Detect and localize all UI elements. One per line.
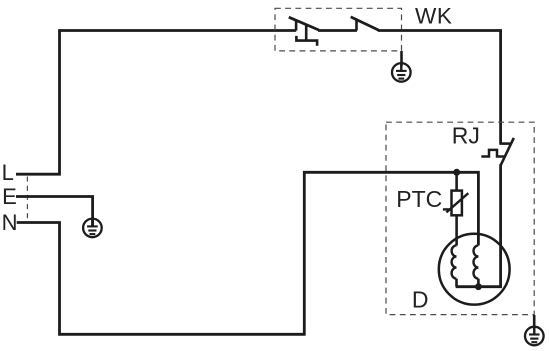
wire E lead and down to ground	[16, 197, 93, 228]
wire riser from bottom wire up and mid wire into enclosure, down to main winding	[304, 172, 478, 334]
wire from junction down to PTC	[455, 172, 458, 190]
ground at compressor enclosure (stem)	[533, 315, 536, 330]
wire start winding to common	[455, 279, 458, 287]
switch S1 fixed contact	[295, 20, 298, 30]
svg-text:D: D	[412, 287, 429, 313]
ground at E (symbol)	[83, 219, 102, 238]
motor D circle	[439, 234, 510, 305]
ground at WK enclosure (stem)	[400, 51, 403, 66]
switch S1 actuator stem	[305, 24, 308, 41]
svg-text:E: E	[2, 184, 17, 209]
overload protector RJ fixed contact	[499, 142, 511, 145]
PTC thermistor diagonal	[446, 193, 468, 212]
svg-text:N: N	[2, 210, 18, 235]
main winding coil	[474, 245, 479, 278]
switch S1 actuator bracket	[296, 36, 317, 46]
wire from PTC down to start winding	[455, 215, 458, 245]
ground at compressor enclosure (symbol)	[525, 327, 544, 346]
svg-text:L: L	[2, 160, 14, 185]
wire main winding to common	[477, 279, 480, 287]
node junction dot at PTC branch	[453, 169, 460, 176]
overload protector RJ thermal actuator	[481, 150, 504, 157]
node junction dot at winding common	[475, 283, 482, 290]
overload protector RJ blade	[501, 138, 514, 165]
PTC thermistor body	[452, 191, 462, 216]
switch S1 blade	[289, 17, 319, 30]
wire from switch S2 to top-right corner and down to RJ	[378, 31, 501, 144]
start winding coil	[452, 245, 457, 278]
svg-text:RJ: RJ	[452, 123, 480, 149]
switch S2 blade	[351, 17, 379, 30]
wire between switch S1 and switch S2	[318, 29, 357, 32]
svg-text:PTC: PTC	[396, 186, 442, 212]
PTC thermistor foot	[443, 208, 451, 210]
compressor unit dashed enclosure	[386, 122, 534, 314]
svg-text:WK: WK	[415, 3, 452, 28]
wire N lead, left riser down and bottom wire	[17, 223, 306, 335]
wire L lead, left riser up and top wire to switch WK	[16, 31, 296, 175]
ground at WK enclosure (symbol)	[392, 63, 411, 82]
switch S2 fixed contact	[355, 19, 358, 31]
wire common bottom and riser up to RJ	[456, 164, 501, 287]
plug boundary dashed line	[26, 177, 28, 220]
thermostat WK dashed enclosure	[275, 8, 402, 51]
